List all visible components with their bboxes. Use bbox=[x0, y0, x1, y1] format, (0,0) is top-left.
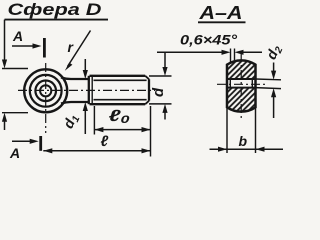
dimension d2 (cross hole diameter) bbox=[256, 42, 286, 118]
dimension D (sphere diameter) extension and arrows bbox=[2, 20, 28, 130]
svg-text:А: А bbox=[12, 28, 23, 44]
dimension d (thread diameter) bbox=[149, 52, 172, 119]
section vertical centerline bbox=[240, 53, 242, 121]
section view marker A (top) bbox=[12, 28, 46, 58]
fillet radius r label with leader arrow bbox=[65, 31, 91, 71]
chamfer dimension 0,6x45° bbox=[157, 31, 262, 64]
section horizontal centerline bbox=[217, 83, 265, 85]
spherical head concentric circles bbox=[24, 69, 67, 112]
svg-text:ℓ: ℓ bbox=[101, 133, 109, 150]
head vertical centerline (section trace) bbox=[45, 63, 47, 133]
section view marker A (bottom) bbox=[9, 136, 42, 161]
threaded shank with end chamfer bbox=[90, 76, 150, 104]
svg-text:Сфера D: Сфера D bbox=[8, 0, 102, 19]
dimension l0 (thread length) bbox=[94, 106, 150, 135]
section outline bbox=[227, 60, 256, 111]
svg-text:b: b bbox=[239, 133, 248, 149]
label Сфера D bbox=[5, 0, 109, 20]
hole band through sphere bbox=[226, 79, 257, 88]
dimension b (width across flats) bbox=[210, 109, 284, 154]
svg-text:А: А bbox=[9, 145, 20, 161]
svg-text:d: d bbox=[150, 87, 167, 97]
thread root lines bbox=[94, 79, 147, 81]
neck between head and thread bbox=[61, 76, 92, 104]
dimension d1 (neck diameter) bbox=[60, 59, 88, 134]
section title А-А bbox=[198, 2, 246, 23]
main horizontal centerline bbox=[18, 89, 155, 91]
dimension l (total length) bbox=[43, 106, 150, 157]
svg-text:0,6×45°: 0,6×45° bbox=[180, 31, 237, 47]
svg-text:А–А: А–А bbox=[198, 2, 242, 23]
section A-A hatched body bbox=[226, 60, 257, 111]
